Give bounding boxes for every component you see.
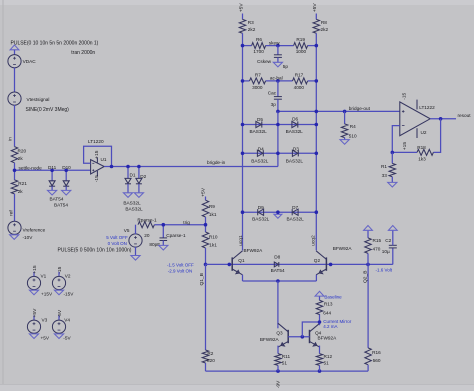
ground under V2 (54, 290, 63, 295)
resistor R16 (365, 264, 371, 371)
net flag arrow Baseline above R13 (315, 291, 324, 296)
ground under V4 (54, 334, 63, 339)
wire Q1_B column (205, 264, 207, 350)
svg-text:51: 51 (324, 361, 330, 366)
net flag arrow above C2 (388, 226, 397, 231)
voltage source V2 -15V (52, 272, 65, 290)
text R18 (417, 145, 426, 150)
text -15V (64, 292, 75, 297)
resistor Rparse-1 (138, 222, 154, 228)
net label brigde-in (207, 160, 226, 165)
voltage source V4 -5V (52, 316, 65, 334)
svg-text:20: 20 (144, 233, 150, 238)
net label +15 V1 (32, 265, 38, 274)
svg-text:-9V: -9V (276, 380, 282, 388)
ground under Cparse-1 (159, 245, 168, 250)
capacitor Cac (274, 81, 282, 112)
svg-text:trig: trig (183, 220, 190, 225)
text Cac (268, 90, 277, 95)
voltage source Vtestsignal (8, 92, 21, 105)
svg-text:-10V: -10V (23, 235, 34, 240)
svg-text:U1: U1 (101, 157, 107, 162)
wire settle-node (15, 169, 91, 171)
net label -15 U1 (94, 175, 100, 182)
svg-text:brigde-in: brigde-in (207, 160, 226, 165)
svg-text:3p: 3p (271, 102, 277, 107)
svg-text:R11: R11 (282, 354, 291, 359)
svg-text:+15: +15 (94, 150, 100, 159)
text 2k (18, 156, 24, 161)
svg-text:Q3: Q3 (276, 331, 283, 336)
text U1 (101, 157, 107, 162)
wire (14, 194, 16, 222)
wire right bridge column (315, 33, 317, 250)
svg-text:80pF: 80pF (149, 242, 160, 247)
text 1k1 R10 (209, 243, 217, 248)
svg-text:4.2 mA: 4.2 mA (323, 324, 337, 329)
resistor R18 (417, 149, 433, 155)
wire (14, 68, 16, 93)
text 10u (382, 249, 390, 254)
transistor Q3 (278, 323, 288, 347)
wire Q4 emitter (319, 346, 321, 354)
svg-text:470: 470 (373, 246, 381, 251)
resistor R2 (202, 350, 208, 363)
resistor R6 (252, 43, 266, 49)
op-amp U2 LT1222 (400, 100, 430, 138)
svg-text:R4: R4 (350, 124, 356, 129)
text R16 (372, 350, 381, 355)
text R13 (324, 302, 333, 307)
text BAS32L D6 (286, 129, 304, 134)
net +5V stub above R9 (205, 197, 207, 201)
node Q4 collector dot (318, 320, 322, 324)
svg-text:V1: V1 (41, 274, 47, 279)
ground under V1 (29, 290, 38, 295)
transistor Q1 (232, 251, 242, 275)
svg-text:644: 644 (323, 310, 331, 315)
text Cskew (257, 59, 272, 64)
svg-text:BAT54: BAT54 (50, 197, 64, 202)
svg-text:+15V: +15V (41, 292, 53, 297)
svg-text:skew: skew (269, 41, 280, 46)
text BFW92A Q4 (318, 336, 338, 341)
svg-text:R12: R12 (324, 354, 333, 359)
svg-text:1000: 1000 (296, 49, 307, 54)
node skew dots (241, 44, 318, 48)
node D4 D3 row dots (241, 152, 318, 156)
wire U2 feedback down (433, 119, 440, 153)
ground under V3 (29, 334, 38, 339)
svg-text:1k1: 1k1 (209, 243, 217, 248)
text D11 (48, 165, 57, 170)
text -5V (63, 336, 71, 341)
resistor R11 (275, 354, 281, 366)
text BAS32L D7 (287, 217, 305, 222)
wire bridge-out row (278, 110, 400, 112)
svg-text:-2.9 Volt ON: -2.9 Volt ON (168, 269, 193, 274)
text Cparse-1 (166, 233, 186, 238)
wire center vertical bridge (277, 111, 279, 153)
text R11 (282, 354, 291, 359)
wire Q4 collector (319, 314, 321, 325)
svg-text:settle-node: settle-node (19, 166, 43, 171)
svg-text:Baseline: Baseline (324, 295, 342, 300)
svg-text:+15: +15 (402, 142, 408, 151)
node ac-bal dots (241, 79, 318, 83)
node Q1 base dot (228, 263, 232, 267)
text LT1222 (419, 105, 435, 110)
svg-text:Q2_B: Q2_B (363, 270, 369, 283)
text R19 (296, 37, 305, 42)
svg-text:820: 820 (207, 358, 215, 363)
wire (14, 105, 16, 147)
svg-text:Q1: Q1 (238, 258, 245, 263)
wire U1 feedback loop (84, 146, 112, 166)
net label ac-bal (270, 75, 283, 80)
node Q1_B dot (204, 263, 208, 267)
svg-text:+5V: +5V (200, 187, 206, 197)
svg-text:BAS32L: BAS32L (123, 201, 141, 206)
node base link dot (301, 335, 305, 339)
diode D4 (257, 150, 263, 156)
text R15 (373, 238, 382, 243)
text D8 (274, 255, 280, 260)
text 510 (349, 134, 357, 139)
svg-text:BAS32L: BAS32L (252, 217, 270, 222)
net label Q2_B (363, 270, 369, 283)
net label +15 U1 (94, 150, 100, 159)
resistor R9 (202, 200, 208, 217)
text R20 (18, 149, 27, 154)
svg-text:R1: R1 (381, 164, 387, 169)
svg-text:Cskew: Cskew (257, 59, 272, 64)
text Vreference (23, 228, 46, 233)
text D4 (258, 146, 264, 151)
capacitor Cskew (274, 46, 282, 63)
text BAS32L D1 (123, 201, 141, 206)
text +5V (41, 336, 50, 341)
text 3000 (252, 85, 263, 90)
svg-text:2k2: 2k2 (321, 27, 329, 32)
diode D8 BAT54 (274, 262, 279, 267)
svg-text:-1.6 Volt: -1.6 Volt (376, 268, 393, 273)
text 4000 (294, 85, 305, 90)
ground (10, 235, 19, 240)
diode D9 (258, 209, 264, 215)
node Q2_B dot (366, 263, 370, 267)
capacitor C2 (389, 230, 397, 264)
text PULSE V5 value (58, 248, 132, 254)
svg-text:51: 51 (282, 361, 288, 366)
svg-text:R3: R3 (248, 20, 254, 25)
svg-text:R2: R2 (207, 351, 213, 356)
text -10V (23, 235, 34, 240)
text R21 (18, 181, 27, 186)
text 1k3 (418, 156, 426, 161)
ground under V5 (131, 256, 140, 261)
wire (277, 365, 279, 371)
text V2 (65, 274, 71, 279)
text BAS32L D4 (251, 159, 269, 164)
svg-text:V2: V2 (65, 274, 71, 279)
node emitter rail dot (276, 279, 280, 283)
text R12 (324, 354, 333, 359)
diode D3 (292, 150, 298, 156)
svg-text:1k3: 1k3 (418, 156, 426, 161)
node dot R12 bottom (318, 369, 322, 373)
text +15V (41, 292, 53, 297)
wire base row (206, 263, 393, 265)
wire skew row (243, 45, 317, 47)
text 51 R12 (324, 361, 330, 366)
net label settle-node (19, 166, 43, 171)
resistor R21 (11, 180, 17, 194)
wire left bridge column (242, 33, 244, 250)
wire U1 output to bridge-in (104, 166, 278, 168)
svg-text:R17: R17 (295, 73, 304, 78)
wire emitter rail (243, 280, 317, 282)
text V5 (124, 228, 130, 233)
text 644 (323, 310, 331, 315)
svg-text:V4: V4 (64, 318, 70, 323)
svg-text:D3: D3 (293, 146, 299, 151)
svg-text:R15: R15 (373, 238, 382, 243)
svg-text:BAT54: BAT54 (54, 203, 68, 208)
text 51 R11 (282, 361, 288, 366)
svg-text:LT1222: LT1222 (419, 105, 435, 110)
net label +5V left column (238, 3, 244, 13)
text D7 (292, 205, 298, 210)
text R2 (207, 351, 213, 356)
svg-text:Q2: Q2 (314, 258, 321, 263)
diode D5 (256, 121, 262, 127)
text 20 (144, 233, 150, 238)
svg-text:C2: C2 (385, 238, 391, 243)
ground under R4 (340, 140, 349, 145)
capacitor Cparse-1 (160, 223, 168, 246)
text Vtestsignal (27, 97, 50, 102)
svg-text:D2: D2 (140, 174, 146, 179)
wire Q3 collector (277, 325, 279, 328)
svg-text:R21: R21 (18, 181, 27, 186)
text 33 (382, 173, 388, 178)
diode D2 (136, 165, 142, 193)
svg-text:2k2: 2k2 (248, 27, 256, 32)
node D9 D7 row dots (241, 210, 318, 214)
svg-text:5p: 5p (283, 64, 289, 69)
svg-text:-1.5 Volt OFF: -1.5 Volt OFF (167, 263, 194, 268)
ground under D10 (62, 190, 71, 195)
node D5 D6 row dots (241, 123, 318, 127)
net label -15 V2 (57, 266, 63, 273)
svg-text:+5V: +5V (238, 3, 244, 13)
text R10 (209, 235, 218, 240)
net label +15 U2 (402, 142, 408, 151)
svg-text:1700: 1700 (253, 49, 264, 54)
net label +5V right column (312, 3, 318, 13)
net flag arrow above VDAC (10, 45, 19, 55)
svg-text:-15: -15 (57, 266, 63, 273)
text 3p (271, 102, 277, 107)
svg-text:-5V: -5V (63, 336, 71, 341)
net label -5V V4 (57, 309, 63, 317)
resistor R4 (341, 111, 347, 139)
net label ucq1 (238, 235, 244, 246)
net label Q1_B (199, 273, 205, 286)
diode D1 (125, 165, 131, 193)
text D10 (62, 165, 71, 170)
svg-text:V3: V3 (42, 318, 48, 323)
wire D5 D6 row (243, 124, 317, 126)
text tran directive (71, 50, 95, 56)
text D1 (130, 172, 136, 177)
text R1 (381, 164, 387, 169)
text D6 (292, 117, 298, 122)
op-amp U1 LT1220 (91, 157, 105, 176)
text 2k2 R3 (248, 27, 256, 32)
text 2k2 R8 (321, 27, 329, 32)
node feedback dot (391, 151, 395, 155)
wire Q1 emitter (242, 275, 244, 281)
wire D9 D7 row (243, 211, 317, 213)
text R7 (255, 73, 261, 78)
wire Q3 Q4 base link (288, 336, 309, 338)
svg-text:R6: R6 (256, 37, 262, 42)
text BAS32L D9 (252, 217, 270, 222)
text V1 (41, 274, 47, 279)
svg-text:Q1_B: Q1_B (199, 273, 205, 286)
svg-text:3000: 3000 (252, 85, 263, 90)
text comment -2.9 Volt ON (168, 269, 193, 274)
wire tail down to current mirror (277, 281, 279, 325)
resistor R1 (389, 152, 395, 182)
text Q1 (238, 258, 245, 263)
text V4 (64, 318, 70, 323)
svg-text:BAS32L: BAS32L (251, 159, 269, 164)
text 470 (373, 246, 381, 251)
resistor R7 (250, 78, 266, 84)
ground under D11 (48, 190, 57, 195)
wire ac-bal row (243, 80, 317, 82)
svg-text:560: 560 (373, 358, 381, 363)
node settle-node dot (13, 169, 17, 173)
text V3 (42, 318, 48, 323)
diode D10 (63, 169, 69, 191)
text R17 (295, 73, 304, 78)
text 1k1 R9 (209, 212, 217, 217)
text BAT54 D10 (54, 203, 68, 208)
svg-text:ref: ref (9, 210, 15, 216)
svg-text:D11: D11 (48, 165, 57, 170)
svg-text:BAS32L: BAS32L (287, 217, 305, 222)
net label resout (458, 113, 472, 118)
node Q2 base dot (329, 263, 333, 267)
node dot R11 bottom -9V (276, 369, 280, 373)
svg-text:R18: R18 (417, 145, 426, 150)
text LT1220 (88, 139, 104, 144)
net label trig (183, 220, 190, 225)
text Q2 (314, 258, 321, 263)
svg-text:V5: V5 (124, 228, 130, 233)
text 1000 (296, 49, 307, 54)
resistor R13 (316, 296, 322, 315)
text BAS32L D3 (286, 159, 304, 164)
svg-text:-15V: -15V (64, 292, 75, 297)
svg-text:R8: R8 (321, 20, 327, 25)
net label +5V V3 (32, 308, 38, 318)
svg-text:BFW92A: BFW92A (318, 336, 338, 341)
svg-text:ucq1: ucq1 (238, 235, 244, 246)
net label skew (269, 41, 280, 46)
svg-text:D6: D6 (292, 117, 298, 122)
text Q4 (315, 331, 322, 336)
text R9 (209, 204, 215, 209)
svg-text:+15: +15 (32, 265, 38, 274)
text BAS32L D5 (250, 129, 268, 134)
node U2 output dot (439, 117, 443, 121)
svg-text:+5V: +5V (312, 3, 318, 13)
net label +5V R9 (200, 187, 206, 197)
text BAT54 D11 (50, 197, 64, 202)
wire Q3 emitter (277, 346, 279, 354)
transistor Q2 (316, 251, 326, 275)
svg-text:LT1220: LT1220 (88, 139, 104, 144)
resistor R20 (11, 147, 17, 163)
svg-text:ucq2: ucq2 (311, 235, 317, 246)
svg-text:510: 510 (349, 134, 357, 139)
text PULSE VDAC value (11, 40, 99, 46)
svg-text:tran 2000n: tran 2000n (71, 50, 95, 56)
voltage source V3 +5V (27, 316, 40, 334)
wire (14, 163, 16, 180)
net label -9V (276, 380, 282, 388)
svg-text:VDAC: VDAC (23, 59, 37, 64)
diode D11 (49, 169, 55, 191)
net label in (8, 137, 14, 141)
voltage source VDAC (8, 55, 21, 68)
svg-text:BFW92A: BFW92A (333, 246, 353, 251)
ground under D2 (134, 193, 143, 198)
text comment -1.5 Volt OFF (167, 263, 194, 268)
svg-text:D5: D5 (257, 117, 263, 122)
svg-text:R13: R13 (324, 302, 333, 307)
wire (319, 365, 321, 371)
ground under R1 (388, 182, 397, 187)
wire (205, 363, 207, 371)
svg-text:resout: resout (458, 113, 472, 118)
wire base-collector jog (302, 322, 319, 337)
text comment Current Mirror (323, 319, 352, 324)
svg-text:Cparse-1: Cparse-1 (166, 233, 186, 238)
svg-text:2k: 2k (18, 156, 24, 161)
svg-text:U2: U2 (421, 130, 427, 135)
text 80pF (149, 242, 160, 247)
svg-text:R7: R7 (255, 73, 261, 78)
diode D6 (292, 121, 298, 127)
svg-text:5 Volt OFF: 5 Volt OFF (106, 235, 128, 240)
text VDAC (23, 59, 37, 64)
net label -15 U2 (401, 92, 407, 99)
ground under D1 (123, 193, 132, 198)
wire -9V rail (206, 370, 369, 372)
text SINE value (26, 107, 70, 113)
svg-text:Vtestsignal: Vtestsignal (27, 97, 50, 102)
svg-text:PULSE(5 0 500n 10n 10n 1000n): PULSE(5 0 500n 10n 10n 1000n) (58, 248, 132, 254)
voltage source V1 +15V (27, 272, 40, 290)
resistor R17 (293, 78, 308, 84)
text D9 (258, 205, 264, 210)
